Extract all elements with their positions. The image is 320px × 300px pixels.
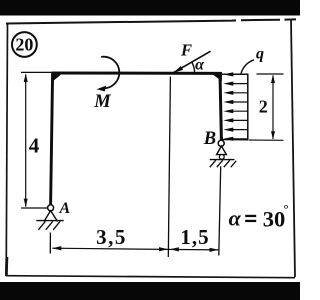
dimension 2 top extension line: [257, 73, 284, 75]
svg-text:30: 30: [263, 206, 286, 231]
alpha equals 30 degrees label: [229, 201, 289, 231]
dimension 2 top arrowhead: [271, 75, 275, 83]
load arrow 7: [223, 128, 247, 132]
dimension 3,5 left arrowhead: [52, 246, 61, 250]
load arrow 3: [223, 91, 247, 95]
svg-text:α: α: [229, 206, 242, 231]
support A triangle: [44, 211, 58, 222]
svg-text:B: B: [203, 129, 216, 149]
support A hatch 1: [38, 221, 45, 230]
load arrow 1: [223, 72, 247, 76]
task number circle 20: [12, 32, 37, 57]
support B hatch 3: [224, 160, 230, 167]
bottom dimension middle extension line: [168, 77, 170, 258]
bottom dimension right extension line: [219, 166, 221, 255]
support A hatch 3: [53, 221, 60, 230]
distributed load right boundary line: [247, 74, 249, 140]
q leader curve: [241, 60, 254, 75]
support A hatch 2: [46, 221, 53, 230]
frame right member: [220, 74, 221, 141]
dimension 2 bottom extension line: [249, 139, 284, 141]
force F line: [173, 51, 210, 73]
support B ground line: [210, 159, 235, 161]
page top border line: [6, 19, 296, 23]
svg-text:°: °: [283, 201, 288, 216]
svg-text:1,5: 1,5: [180, 225, 209, 249]
moment M arc: [101, 57, 119, 89]
force F arrowhead: [173, 66, 183, 73]
svg-text:20: 20: [15, 34, 33, 54]
support B hatch 4: [231, 161, 236, 167]
dimension 2 line: [272, 76, 274, 140]
support B pin circle: [218, 140, 224, 146]
support B hatch 2: [217, 160, 223, 167]
svg-text:α: α: [195, 56, 205, 73]
frame top member: [52, 72, 222, 75]
load arrow 6: [223, 118, 247, 122]
moment M arrowhead: [97, 86, 107, 92]
load arrow 8: [223, 137, 247, 141]
svg-text:M: M: [93, 92, 111, 112]
page left border lower thick segment: [5, 257, 8, 276]
page left border line: [6, 23, 7, 277]
dimension 3,5 right arrowhead: [159, 247, 168, 251]
dimension 4 top extension line: [21, 71, 52, 73]
right corner gusset: [213, 72, 223, 81]
svg-text:A: A: [59, 200, 71, 217]
load arrow 5: [223, 109, 247, 113]
svg-text:3,5: 3,5: [96, 225, 127, 249]
angle alpha arc: [192, 62, 195, 73]
support A pin circle: [48, 205, 54, 211]
svg-text:q: q: [256, 46, 264, 63]
support B roller circle: [219, 155, 224, 160]
dimension 4 bottom arrowhead: [24, 199, 28, 208]
support A ground line: [36, 220, 63, 222]
dimension 1,5 right arrowhead: [210, 248, 219, 252]
svg-text:4: 4: [29, 133, 40, 157]
svg-text:2: 2: [259, 97, 268, 117]
support B triangle: [217, 146, 227, 155]
frame left member: [51, 73, 53, 206]
dimension 4 bottom extension line: [21, 207, 48, 209]
dimension 4 line: [25, 75, 27, 207]
bottom black band: [0, 282, 300, 300]
distributed load bottom edge: [222, 139, 249, 141]
left corner gusset: [51, 72, 62, 81]
support B hatch 1: [210, 160, 216, 167]
dimension 1,5 left arrowhead: [170, 247, 179, 251]
page right border line: [291, 20, 295, 277]
svg-text:F: F: [180, 40, 192, 59]
dimension 2 bottom arrowhead: [271, 131, 275, 139]
bottom dimension line: [52, 248, 218, 250]
top black band: [0, 0, 300, 16]
bottom dimension left extension line: [49, 233, 51, 254]
load arrow 4: [223, 100, 247, 104]
dimension 4 top arrowhead: [24, 73, 28, 82]
distributed load top edge: [222, 73, 249, 75]
load arrow 2: [223, 82, 247, 86]
page bottom border line: [6, 276, 295, 278]
